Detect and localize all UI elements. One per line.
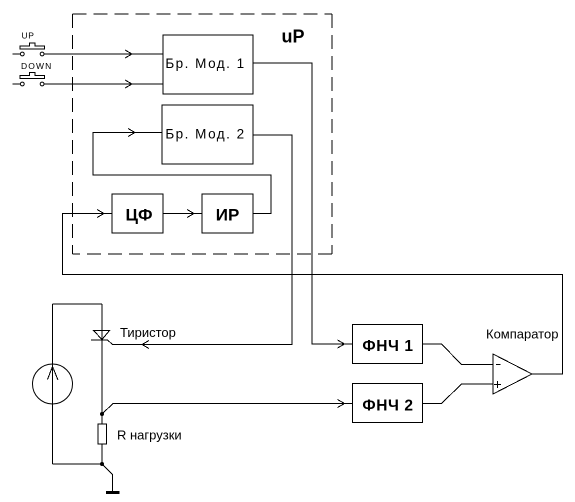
arrowhead on DOWN wire (125, 80, 132, 88)
comparator plus sign (494, 384, 501, 386)
wire ИР output loop up to Бр.Мод.2 input (93, 133, 271, 214)
wire ЦФ to ИР (163, 213, 202, 215)
microprocessor uP boundary (dashed box) (73, 14, 333, 254)
svg-text:DOWN: DOWN (21, 61, 52, 71)
resistor R нагрузки (98, 424, 107, 444)
comparator op-amp (493, 354, 532, 394)
load circuit: left wire (52, 304, 54, 464)
wire resistor bottom to bottom rail (101, 444, 103, 464)
load circuit: top wire (53, 303, 103, 305)
block ФНЧ 1 (353, 325, 423, 364)
wire Бр.Мод.1 output down to ФНЧ 1 (253, 63, 353, 344)
current source (circle with upward arrow) (33, 364, 73, 404)
svg-text:uP: uP (282, 27, 305, 47)
arrowhead into Бр.Мод.2 (128, 129, 135, 137)
thyristor (94, 331, 110, 340)
svg-text:Бр. Мод. 2: Бр. Мод. 2 (165, 127, 245, 142)
thyristor gate lead (108, 340, 113, 345)
svg-text:ИР: ИР (216, 206, 240, 225)
node junction at bottom rail (100, 462, 104, 466)
svg-text:ФНЧ 2: ФНЧ 2 (362, 397, 413, 414)
wire Бр.Мод.2 output down to thyristor gate (113, 135, 293, 345)
block ИР (202, 194, 253, 233)
wire from top through thyristor down to resistor (101, 304, 103, 424)
arrowhead into ЦФ (97, 210, 104, 218)
wire ФНЧ 1 output to comparator inverting input (423, 344, 494, 365)
arrowhead into ФНЧ 1 (338, 340, 345, 348)
arrowhead on gate wire (pointing left) (142, 341, 149, 349)
svg-text:Бр. Мод. 1: Бр. Мод. 1 (165, 56, 245, 71)
wire ФНЧ 2 output to comparator non-inverting input (423, 384, 494, 404)
wire UP button to Бр.Мод.1 (44, 53, 163, 55)
ground (106, 491, 120, 494)
block ЦФ (112, 194, 163, 233)
block Бр. Мод. 2 (162, 105, 253, 164)
wire feedback comparator output to ЦФ input (63, 214, 563, 375)
pushbutton DOWN (13, 61, 53, 86)
block ФНЧ 2 (353, 384, 423, 423)
svg-text:Тиристор: Тиристор (120, 325, 176, 340)
arrowhead on UP wire (125, 50, 132, 58)
wire DOWN button to Бр.Мод.1 (44, 83, 163, 85)
svg-text:Компаратор: Компаратор (486, 327, 558, 342)
svg-text:R нагрузки: R нагрузки (117, 428, 182, 443)
load circuit: bottom wire (53, 463, 103, 465)
pushbutton UP (13, 31, 45, 56)
comparator minus sign (496, 364, 501, 366)
block Бр. Мод. 1 (163, 35, 253, 94)
wire to ground (102, 464, 113, 492)
wire tap to ФНЧ 2 input (102, 404, 353, 415)
svg-text:UP: UP (22, 31, 35, 41)
svg-text:ФНЧ 1: ФНЧ 1 (362, 338, 413, 355)
svg-text:ЦФ: ЦФ (126, 206, 153, 225)
node junction at thyristor/R tap (100, 412, 104, 416)
arrowhead into ИР (187, 210, 194, 218)
arrowhead into ФНЧ 2 (338, 400, 345, 408)
